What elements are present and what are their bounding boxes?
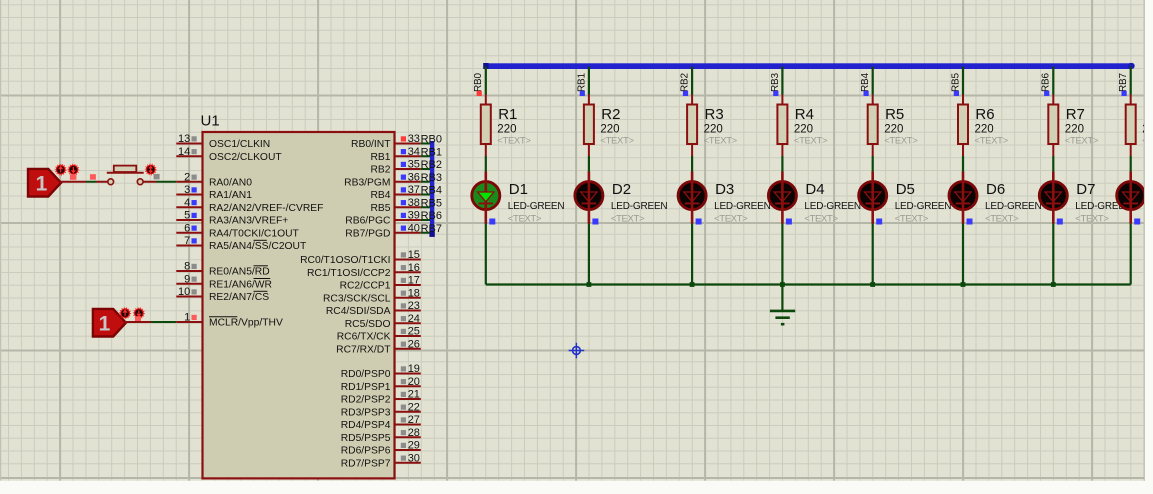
svg-text:220: 220	[704, 124, 723, 136]
value 220 (R1)	[497, 124, 516, 136]
state marker square (column 7)	[1044, 91, 1049, 96]
svg-text:RD0/PSP0: RD0/PSP0	[341, 369, 391, 380]
svg-text:7: 7	[184, 235, 190, 247]
net label RB7 (at pin)	[421, 223, 442, 235]
overline MCLR	[209, 316, 237, 318]
value placeholder TEXT (D1)	[508, 214, 542, 225]
pin 13 (left)	[176, 133, 202, 145]
value placeholder TEXT (D4)	[804, 214, 838, 225]
svg-text:RB3: RB3	[421, 172, 442, 184]
svg-text:RB4: RB4	[370, 190, 390, 201]
bus RB vertical (at U1)	[429, 141, 434, 237]
state marker square (column 8)	[1122, 91, 1127, 96]
svg-text:RD7/PSP7: RD7/PSP7	[341, 458, 391, 469]
pin name OSC2/CLKOUT	[209, 152, 282, 163]
toggle icon down (terminal 1)	[68, 164, 79, 175]
pin 38 (RB5)	[395, 197, 421, 209]
pin 16 (right)	[395, 262, 421, 274]
svg-text:RB2: RB2	[680, 73, 691, 92]
net label RB0 (rotated, column 1)	[473, 73, 484, 92]
wire segment (green) to RA0	[156, 181, 176, 183]
svg-text:28: 28	[408, 427, 420, 439]
svg-text:39: 39	[408, 210, 420, 222]
svg-text:RA1/AN1: RA1/AN1	[209, 190, 252, 201]
pin 7 (left)	[176, 235, 202, 247]
svg-text:RD2/PSP2: RD2/PSP2	[341, 395, 391, 406]
value LED-GREEN (D2)	[611, 201, 668, 212]
pin name RA1/AN1	[209, 190, 252, 201]
pin name RD7/PSP7	[341, 458, 391, 469]
value 220 (R7)	[1065, 124, 1084, 136]
state marker square (below D6)	[967, 219, 973, 225]
svg-text:27: 27	[408, 414, 420, 426]
pin name RD3/PSP3	[341, 407, 391, 418]
toggle icon up (MCLR terminal)	[120, 308, 131, 319]
svg-text:35: 35	[408, 159, 420, 171]
wire bus tap to R6 (green)	[962, 67, 964, 95]
svg-text:D6: D6	[986, 181, 1005, 198]
svg-text:RB4: RB4	[860, 73, 871, 92]
LED D4	[768, 172, 796, 224]
pin name RA2/AN2/VREF-/CVREF	[209, 203, 323, 214]
resistor R1	[481, 95, 491, 157]
value 220 (R2)	[600, 124, 619, 136]
svg-text:34: 34	[408, 146, 420, 158]
pin 25 (right)	[395, 326, 421, 338]
net label RB5 (at pin)	[421, 197, 442, 209]
svg-text:<TEXT>: <TEXT>	[975, 136, 1009, 147]
wire button to pin 2 (red lead)	[143, 181, 156, 183]
value placeholder TEXT (R3)	[704, 136, 738, 147]
net label RB6 (at pin)	[421, 210, 442, 222]
svg-text:R2: R2	[601, 106, 620, 123]
svg-text:RB2: RB2	[421, 159, 442, 171]
svg-text:1: 1	[184, 312, 190, 324]
terminal 1 (logic state high, MCLR)	[93, 309, 126, 337]
pin 40 (RB7)	[395, 222, 421, 234]
svg-text:9: 9	[184, 273, 190, 285]
svg-text:37: 37	[408, 184, 420, 196]
pin 15 (right)	[395, 249, 421, 261]
pin name RD4/PSP4	[341, 420, 391, 431]
svg-text:<TEXT>: <TEXT>	[1075, 214, 1109, 225]
resistor R8	[1126, 95, 1136, 157]
junction (rail, column 4)	[780, 282, 785, 287]
pin 29 (right)	[395, 440, 421, 452]
pin 3 (left)	[176, 184, 202, 196]
svg-text:OSC2/CLKOUT: OSC2/CLKOUT	[209, 152, 282, 163]
pin name RA4/T0CKI/C1OUT	[209, 228, 300, 239]
wire R5 to D5 (green)	[872, 156, 874, 172]
wire bus tap to R7 (green)	[1052, 67, 1054, 95]
svg-text:R3: R3	[705, 106, 724, 123]
svg-text:3: 3	[184, 184, 190, 196]
svg-text:RB5: RB5	[950, 73, 961, 92]
pin name RE2/AN7/CS	[209, 292, 269, 303]
pin 18 (right)	[395, 287, 421, 299]
svg-text:R1: R1	[498, 106, 517, 123]
net label RB6 (rotated, column 7)	[1041, 73, 1052, 92]
svg-text:13: 13	[178, 133, 190, 145]
value LED-GREEN (D3)	[714, 201, 771, 212]
value 220 (R5)	[884, 124, 903, 136]
svg-text:RB7/PGD: RB7/PGD	[345, 228, 390, 239]
svg-text:<TEXT>: <TEXT>	[794, 136, 828, 147]
svg-text:RD1/PSP1: RD1/PSP1	[341, 382, 391, 393]
svg-text:D3: D3	[715, 181, 734, 198]
wire terminal 1 to button (red lead)	[60, 181, 86, 183]
junction (rail, column 7)	[1051, 282, 1056, 287]
overline CS (RE2)	[254, 290, 268, 292]
value 220 (R8)	[1142, 124, 1153, 136]
pin name MCLR/Vpp/THV	[209, 318, 283, 329]
svg-text:<TEXT>: <TEXT>	[714, 214, 748, 225]
svg-text:RB1: RB1	[370, 152, 390, 163]
state marker square (below D7)	[1057, 219, 1063, 225]
svg-text:RE1/AN6/WR: RE1/AN6/WR	[209, 279, 272, 290]
svg-text:RA0/AN0: RA0/AN0	[209, 177, 252, 188]
wire bus tap to R2 (green)	[588, 67, 590, 95]
state marker square (column 6)	[954, 91, 959, 96]
pin 35 (RB2)	[395, 159, 421, 171]
pin 34 (RB1)	[395, 146, 421, 158]
pin name RC7/RX/DT	[336, 344, 391, 355]
wire pin 36 to bus (green)	[421, 181, 431, 183]
svg-text:RB0: RB0	[473, 73, 484, 92]
label R7	[1066, 106, 1085, 123]
pin name OSC1/CLKIN	[209, 139, 270, 150]
pin name RC5/SDO	[345, 319, 391, 330]
svg-text:RC5/SDO: RC5/SDO	[345, 319, 391, 330]
pin 36 (RB3)	[395, 171, 421, 183]
svg-text:RA3/AN3/VREF+: RA3/AN3/VREF+	[209, 216, 288, 227]
junction (rail, column 2)	[587, 282, 592, 287]
bus (top horizontal)	[483, 63, 1134, 69]
svg-text:33: 33	[408, 133, 420, 145]
pin name RB6/PGC	[345, 216, 391, 227]
svg-text:RA4/T0CKI/C1OUT: RA4/T0CKI/C1OUT	[209, 228, 300, 239]
junction (rail, column 3)	[690, 282, 695, 287]
wire D8 to ground rail (green)	[1130, 224, 1132, 285]
svg-text:<TEXT>: <TEXT>	[895, 214, 929, 225]
pin 10 (left)	[176, 286, 202, 298]
wire D7 to ground rail (green)	[1052, 224, 1054, 285]
svg-text:16: 16	[408, 262, 420, 274]
svg-text:LED-GREEN: LED-GREEN	[714, 201, 771, 212]
svg-text:220: 220	[975, 124, 994, 136]
svg-text:LED-GREEN: LED-GREEN	[985, 201, 1042, 212]
value placeholder TEXT (D5)	[895, 214, 929, 225]
svg-text:RB6/PGC: RB6/PGC	[345, 216, 391, 227]
wire bus tap to R3 (green)	[691, 67, 693, 95]
svg-text:40: 40	[408, 222, 420, 234]
resistor R4	[777, 95, 787, 157]
pin name RB0/INT	[351, 139, 391, 150]
wire R6 to D6 (green)	[962, 156, 964, 172]
wire pin 40 to bus (green)	[421, 232, 431, 234]
pin name RA0/AN0	[209, 177, 252, 188]
value LED-GREEN (D1)	[508, 201, 565, 212]
svg-text:<TEXT>: <TEXT>	[497, 136, 531, 147]
value 220 (R4)	[794, 124, 813, 136]
value placeholder TEXT (R2)	[600, 136, 634, 147]
svg-text:220: 220	[1065, 124, 1084, 136]
svg-text:30: 30	[408, 452, 420, 464]
state marker square (below D4)	[786, 219, 792, 225]
svg-text:RB7: RB7	[421, 223, 442, 235]
svg-text:<TEXT>: <TEXT>	[508, 214, 542, 225]
svg-text:RC4/SDI/SDA: RC4/SDI/SDA	[326, 306, 391, 317]
value placeholder TEXT (R5)	[884, 136, 918, 147]
svg-text:220: 220	[884, 124, 903, 136]
net label RB2 (rotated, column 3)	[680, 73, 691, 92]
value placeholder TEXT (D3)	[714, 214, 748, 225]
pin name RC0/T1OSO/T1CKI	[300, 255, 390, 266]
svg-text:RC7/RX/DT: RC7/RX/DT	[336, 344, 391, 355]
LED D5	[859, 172, 887, 224]
svg-text:D5: D5	[896, 181, 915, 198]
resistor R2	[584, 95, 594, 157]
label D2	[612, 181, 631, 198]
svg-text:R5: R5	[885, 106, 904, 123]
wire R2 to D2 (green)	[588, 156, 590, 172]
svg-text:R7: R7	[1066, 106, 1085, 123]
svg-text:LED-GREEN: LED-GREEN	[895, 201, 952, 212]
pin name RA3/AN3/VREF+	[209, 216, 288, 227]
pin 4 (left)	[176, 197, 202, 209]
pin name RD0/PSP0	[341, 369, 391, 380]
value placeholder TEXT (D2)	[611, 214, 645, 225]
wire R8 to D8 (green)	[1130, 156, 1132, 172]
pin 8 (left)	[176, 261, 202, 273]
pin name RC4/SDI/SDA	[326, 306, 391, 317]
pin name RE1/AN6/WR	[209, 279, 272, 290]
svg-text:220: 220	[497, 124, 516, 136]
svg-text:RE0/AN5/RD: RE0/AN5/RD	[209, 267, 270, 278]
label R2	[601, 106, 620, 123]
state marker square (gray, right of button)	[154, 174, 160, 180]
net label RB4 (at pin)	[421, 185, 442, 197]
label R6	[975, 106, 994, 123]
svg-text:RB2: RB2	[370, 165, 390, 176]
svg-text:U1: U1	[201, 113, 220, 130]
state marker square (below D5)	[876, 219, 882, 225]
svg-text:RB0: RB0	[421, 134, 442, 146]
net label RB1 (rotated, column 2)	[576, 73, 587, 92]
LED D2	[575, 172, 603, 224]
pin 39 (RB6)	[395, 210, 421, 222]
svg-text:2: 2	[184, 171, 190, 183]
pin 24 (right)	[395, 313, 421, 325]
label R5	[885, 106, 904, 123]
pin 28 (right)	[395, 427, 421, 439]
svg-text:1: 1	[36, 173, 48, 196]
wire D2 to ground rail (green)	[588, 224, 590, 285]
svg-text:RB3/PGM: RB3/PGM	[344, 177, 390, 188]
value placeholder TEXT (R8)	[1142, 136, 1153, 147]
net label RB5 (rotated, column 6)	[950, 73, 961, 92]
terminal 1 (logic state high, top-left)	[28, 169, 61, 197]
value placeholder TEXT (D7)	[1075, 214, 1109, 225]
toggle icon down (MCLR terminal)	[134, 308, 145, 319]
svg-text:25: 25	[408, 326, 420, 338]
svg-text:LED-GREEN: LED-GREEN	[804, 201, 861, 212]
pin 37 (RB4)	[395, 184, 421, 196]
svg-text:RB7: RB7	[1118, 73, 1129, 92]
svg-text:<TEXT>: <TEXT>	[611, 214, 645, 225]
net label RB0 (at pin)	[421, 134, 442, 146]
svg-text:RD5/PSP5: RD5/PSP5	[341, 433, 391, 444]
pin 27 (right)	[395, 414, 421, 426]
toggle icon (right of button)	[145, 164, 156, 175]
value placeholder TEXT (R7)	[1065, 136, 1099, 147]
junction (rail, column 6)	[961, 282, 966, 287]
net label RB7 (rotated, column 8)	[1118, 73, 1129, 92]
svg-text:RB5: RB5	[370, 203, 390, 214]
LED D1	[472, 172, 500, 224]
state marker square (column 3)	[683, 91, 688, 96]
svg-text:RA5/AN4/SS/C2OUT: RA5/AN4/SS/C2OUT	[209, 241, 307, 252]
resistor R5	[868, 95, 878, 157]
svg-text:RD3/PSP3: RD3/PSP3	[341, 407, 391, 418]
push button (SPST)	[107, 166, 144, 185]
svg-text:RB1: RB1	[421, 146, 442, 158]
svg-text:<TEXT>: <TEXT>	[884, 136, 918, 147]
wire bus tap to R8 (green)	[1130, 67, 1132, 95]
pin name RD1/PSP1	[341, 382, 391, 393]
svg-text:RD4/PSP4: RD4/PSP4	[341, 420, 391, 431]
MCU U1 (PIC16F877A) body	[203, 132, 395, 478]
state marker square (salmon, left of button)	[90, 174, 96, 180]
LED D6	[949, 172, 977, 224]
svg-text:RB4: RB4	[421, 185, 442, 197]
svg-text:RA2/AN2/VREF-/CVREF: RA2/AN2/VREF-/CVREF	[209, 203, 323, 214]
svg-text:6: 6	[184, 222, 190, 234]
svg-text:15: 15	[408, 249, 420, 261]
svg-text:<TEXT>: <TEXT>	[600, 136, 634, 147]
svg-text:36: 36	[408, 171, 420, 183]
wire bus tap to R1 (green)	[485, 67, 487, 95]
wire D4 to ground rail (green)	[781, 224, 783, 285]
svg-text:RC2/CCP1: RC2/CCP1	[340, 281, 391, 292]
label D1	[509, 181, 528, 198]
label D3	[715, 181, 734, 198]
pin name RD6/PSP6	[341, 446, 391, 457]
value LED-GREEN (D5)	[895, 201, 952, 212]
pin name RC6/TX/CK	[337, 332, 391, 343]
svg-text:D4: D4	[805, 181, 824, 198]
net label RB4 (rotated, column 5)	[860, 73, 871, 92]
svg-text:RC1/T1OSI/CCP2: RC1/T1OSI/CCP2	[307, 268, 391, 279]
state marker square (column 1)	[477, 91, 482, 96]
value placeholder TEXT (R1)	[497, 136, 531, 147]
pin 22 (right)	[395, 401, 421, 413]
svg-text:18: 18	[408, 287, 420, 299]
junction (rail, column 5)	[870, 282, 875, 287]
svg-text:D7: D7	[1076, 181, 1095, 198]
state marker square (column 4)	[773, 91, 778, 96]
wire R4 to D4 (green)	[781, 156, 783, 172]
pin 23 (right)	[395, 300, 421, 312]
label D5	[896, 181, 915, 198]
svg-text:8: 8	[184, 261, 190, 273]
pin 17 (right)	[395, 275, 421, 287]
origin marker	[569, 343, 585, 359]
svg-text:RB0/INT: RB0/INT	[351, 139, 391, 150]
pin 14 (left)	[176, 146, 202, 158]
ground	[770, 285, 795, 325]
svg-text:<TEXT>: <TEXT>	[704, 136, 738, 147]
svg-text:RB3: RB3	[770, 73, 781, 92]
label D4	[805, 181, 824, 198]
svg-text:LED-GREEN: LED-GREEN	[508, 201, 565, 212]
svg-text:RE2/AN7/CS: RE2/AN7/CS	[209, 292, 269, 303]
pin name RA5/AN4/SS/C2OUT	[209, 241, 307, 252]
pin name RB2	[370, 165, 390, 176]
svg-text:RB6: RB6	[1041, 73, 1052, 92]
wire segment (green) to MCLR	[151, 321, 176, 323]
pin name RC3/SCK/SCL	[323, 293, 391, 304]
wire R7 to D7 (green)	[1052, 156, 1054, 172]
net label RB2 (at pin)	[421, 159, 442, 171]
pin name RE0/AN5/RD	[209, 267, 270, 278]
LED D7	[1039, 172, 1067, 224]
svg-text:<TEXT>: <TEXT>	[804, 214, 838, 225]
svg-text:<TEXT>: <TEXT>	[1065, 136, 1099, 147]
svg-text:220: 220	[600, 124, 619, 136]
svg-text:RC3/SCK/SCL: RC3/SCK/SCL	[323, 293, 391, 304]
svg-text:D1: D1	[509, 181, 528, 198]
pin 33 (RB0)	[395, 133, 421, 145]
resistor R6	[958, 95, 968, 157]
svg-text:RC6/TX/CK: RC6/TX/CK	[337, 332, 391, 343]
overline RD (RE0)	[254, 265, 268, 267]
pin name RB3/PGM	[344, 177, 390, 188]
pin 6 (left)	[176, 222, 202, 234]
pin name RC1/T1OSI/CCP2	[307, 268, 391, 279]
pin name RB5	[370, 203, 390, 214]
label D6	[986, 181, 1005, 198]
wire D3 to ground rail (green)	[691, 224, 693, 285]
value LED-GREEN (D4)	[804, 201, 861, 212]
svg-text:19: 19	[408, 363, 420, 375]
state marker square (column 5)	[864, 91, 869, 96]
wire R3 to D3 (green)	[691, 156, 693, 172]
overline SS (RA5)	[254, 239, 267, 241]
resistor R3	[687, 95, 697, 157]
net label RB1 (at pin)	[421, 146, 442, 158]
state marker square (column 2)	[580, 91, 585, 96]
net label RB3 (at pin)	[421, 172, 442, 184]
svg-text:24: 24	[408, 313, 420, 325]
svg-text:26: 26	[408, 338, 420, 350]
svg-text:22: 22	[408, 401, 420, 413]
wire pin 33 to bus (green)	[421, 143, 431, 145]
svg-text:14: 14	[178, 146, 190, 158]
svg-text:5: 5	[184, 210, 190, 222]
state marker square (salmon, MCLR)	[135, 316, 141, 322]
svg-text:1: 1	[99, 313, 111, 336]
label R3	[705, 106, 724, 123]
svg-text:R4: R4	[795, 106, 814, 123]
pin name RD2/PSP2	[341, 395, 391, 406]
label R4	[795, 106, 814, 123]
wire bus tap to R4 (green)	[781, 67, 783, 95]
pin name RB4	[370, 190, 390, 201]
svg-text:29: 29	[408, 440, 420, 452]
wire R1 to D1 (green)	[485, 156, 487, 172]
svg-text:LED-GREEN: LED-GREEN	[611, 201, 668, 212]
